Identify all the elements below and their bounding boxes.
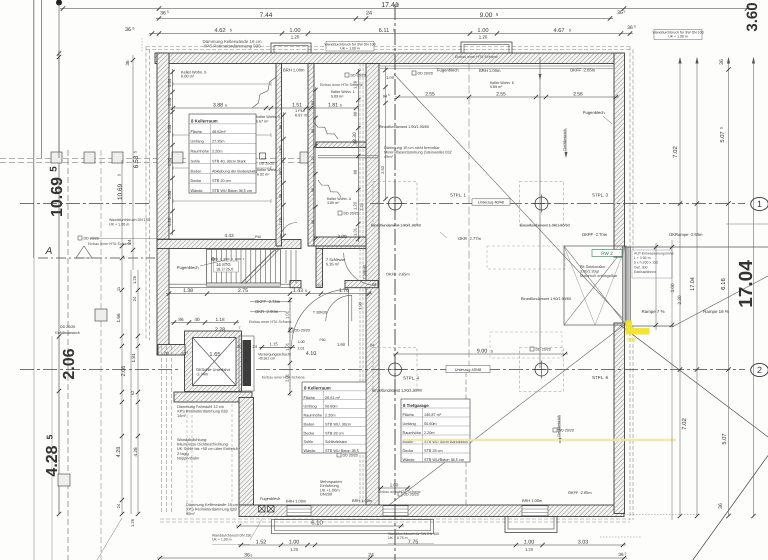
svg-text:1.54: 1.54 [167, 78, 172, 87]
svg-text:2.20m: 2.20m [424, 431, 434, 435]
svg-text:STPL. 4: STPL. 4 [403, 376, 419, 381]
wall: garage right [614, 53, 625, 257]
wall: room1 bottom [157, 240, 301, 249]
svg-text:Edelstahlrinne: Edelstahlrinne [634, 270, 656, 274]
svg-text:3.60: 3.60 [744, 2, 761, 31]
svg-text:BRH 1.00m: BRH 1.00m [522, 498, 542, 503]
svg-text:9.00: 9.00 [477, 348, 488, 354]
svg-text:5: 5 [167, 10, 169, 14]
svg-text:36: 36 [719, 59, 725, 65]
svg-text:36: 36 [618, 552, 624, 557]
svg-text:9.00: 9.00 [480, 12, 493, 19]
svg-text:BRH 1.00m: BRH 1.00m [286, 499, 306, 504]
svg-text:26.61 m²: 26.61 m² [325, 396, 341, 400]
svg-text:1.20: 1.20 [311, 156, 315, 163]
svg-text:86: 86 [178, 317, 184, 322]
dims above elevator [171, 322, 239, 324]
svg-text:Boden: Boden [304, 422, 315, 426]
svg-text:OKFF -2.70m: OKFF -2.70m [582, 232, 608, 237]
svg-text:52: 52 [130, 390, 135, 395]
svg-text:Elt-Sektionaltor: Elt-Sektionaltor [580, 265, 606, 269]
insulation west lower [161, 346, 163, 512]
svg-text:5: 5 [569, 27, 571, 32]
svg-text:7.02: 7.02 [672, 146, 679, 158]
svg-text:1.00: 1.00 [390, 482, 399, 487]
svg-text:24: 24 [132, 296, 137, 301]
svg-text:A: A [45, 246, 53, 257]
svg-text:11: 11 [317, 282, 321, 287]
wall: garage separation with insulation [366, 64, 379, 511]
svg-text:Boden: Boden [191, 169, 202, 173]
section line A [38, 257, 155, 259]
svg-text:6.87 m²: 6.87 m² [295, 113, 309, 118]
svg-text:4.10: 4.10 [306, 351, 317, 357]
svg-text:Einzelfundament 1.90/1.90/60: Einzelfundament 1.90/1.90/60 [521, 297, 571, 301]
svg-text:1.43: 1.43 [293, 288, 303, 294]
right margin vertical dim lines [679, 58, 681, 516]
svg-text:90m²: 90m² [186, 511, 196, 516]
svg-text:5: 5 [625, 551, 627, 555]
boundary posts [51, 152, 62, 163]
svg-text:3.00: 3.00 [670, 283, 675, 292]
svg-text:8 Kellerraum: 8 Kellerraum [191, 119, 218, 124]
svg-text:UK + 1.00 m: UK + 1.00 m [212, 537, 232, 541]
svg-text:2.20: 2.20 [677, 295, 682, 304]
svg-text:1.20: 1.20 [290, 547, 299, 552]
svg-text:Einzelfundament 1.90/1.90/60: Einzelfundament 1.90/1.90/60 [379, 125, 429, 129]
svg-text:Sohle: Sohle [191, 159, 201, 163]
svg-text:1.01: 1.01 [284, 310, 289, 319]
door arc flur-schleuse [280, 223, 297, 240]
svg-text:Einzelfundament 1.90/1.90/60: Einzelfundament 1.90/1.90/60 [520, 224, 570, 228]
svg-text:2.01: 2.01 [284, 373, 289, 382]
flur dim chain [283, 112, 285, 236]
svg-text:24: 24 [368, 552, 374, 558]
svg-text:5: 5 [116, 174, 121, 176]
svg-text:50.60m: 50.60m [424, 422, 437, 426]
svg-text:Fläche: Fläche [403, 413, 414, 417]
door arc schleuse-garage [344, 253, 377, 286]
svg-text:5.89 m²: 5.89 m² [331, 95, 344, 99]
axis 1 [20, 203, 150, 205]
garage top dim chain 2.55/2.50/2.56 [395, 96, 619, 98]
walls: right room column partitions [316, 142, 366, 148]
svg-text:17.04: 17.04 [736, 260, 757, 308]
svg-text:Fugenblech: Fugenblech [260, 496, 280, 501]
svg-text:3.89 m²: 3.89 m² [327, 201, 340, 205]
svg-text:+0/161 cm: +0/161 cm [258, 357, 275, 361]
svg-text:STPL. 1: STPL. 1 [450, 193, 466, 198]
svg-text:50.60m: 50.60m [325, 405, 338, 409]
ramp lines [626, 246, 768, 248]
svg-text:2.55: 2.55 [496, 91, 506, 97]
site boundary dashed lines left [0, 158, 312, 160]
svg-text:DD 20/20: DD 20/20 [343, 454, 358, 458]
svg-text:88: 88 [353, 111, 358, 116]
top dim chain 2 [156, 18, 613, 20]
svg-text:UK + 1.00 m: UK + 1.00 m [340, 46, 360, 50]
svg-text:1.76: 1.76 [339, 288, 349, 294]
svg-text:T 30RdS: T 30RdS [363, 264, 367, 279]
areaway rect below wall [272, 519, 434, 533]
door leaf in wall opening [623, 247, 631, 323]
yellow highlight [626, 321, 650, 335]
svg-text:3.30: 3.30 [352, 132, 358, 142]
svg-text:Raumhöhe: Raumhöhe [191, 150, 209, 154]
svg-text:1.00: 1.00 [289, 539, 300, 545]
svg-text:5: 5 [719, 127, 723, 129]
wall: pier left of 4.10 door [290, 281, 301, 288]
top dim chain 1: 17.41 [60, 8, 750, 10]
staircase 14 STG [207, 250, 281, 284]
garage diag A [394, 74, 626, 322]
duct shaft Versorgungsschacht [243, 340, 252, 386]
svg-text:Sohle: Sohle [304, 440, 314, 444]
bottom chain 2 [238, 544, 626, 546]
door arc schleuse-flur [326, 295, 352, 321]
svg-text:Umfang: Umfang [304, 405, 317, 409]
svg-text:b x h 200 x 150: b x h 200 x 150 [634, 261, 658, 265]
svg-text:1.01: 1.01 [284, 342, 289, 351]
svg-text:OKFF -2.65m: OKFF -2.65m [568, 490, 592, 495]
svg-text:RW 2: RW 2 [601, 251, 613, 256]
svg-text:88: 88 [311, 129, 315, 133]
svg-text:5.07: 5.07 [722, 433, 728, 444]
svg-text:88: 88 [311, 220, 315, 224]
svg-text:45m²: 45m² [384, 154, 394, 159]
room1 span lines [173, 83, 271, 85]
wall: left outer [157, 53, 169, 355]
svg-text:OKRampe -2.55m: OKRampe -2.55m [669, 232, 703, 237]
svg-text:2.20m: 2.20m [212, 150, 222, 154]
svg-text:7: 7 [238, 326, 240, 330]
label wanddurchbruch top 1 [326, 42, 374, 52]
svg-text:1.00: 1.00 [386, 75, 395, 80]
svg-text:Raumhöhe: Raumhöhe [304, 414, 322, 418]
svg-text:STPL. 3: STPL. 3 [592, 193, 608, 198]
svg-text:1.20: 1.20 [479, 35, 488, 40]
svg-text:5: 5 [225, 103, 227, 107]
wall: step to elevator [158, 345, 185, 356]
svg-text:1.20: 1.20 [353, 201, 358, 210]
svg-text:DD 20/20: DD 20/20 [344, 212, 359, 216]
svg-text:UK + 1.00 m: UK + 1.00 m [109, 223, 129, 227]
svg-text:36: 36 [160, 11, 166, 17]
svg-text:36: 36 [718, 503, 724, 509]
svg-text:70: 70 [163, 351, 169, 356]
svg-text:48.62m²: 48.62m² [212, 130, 227, 134]
svg-text:1.38: 1.38 [183, 288, 193, 294]
svg-text:5.89 m²: 5.89 m² [490, 85, 503, 89]
svg-text:1.81: 1.81 [131, 353, 136, 362]
svg-text:1.26: 1.26 [132, 275, 137, 284]
svg-text:Schlitzleisten: Schlitzleisten [325, 440, 347, 444]
svg-text:5: 5 [491, 349, 493, 353]
svg-text:DD 20/20: DD 20/20 [84, 237, 99, 241]
misc diagonal bottom-left [97, 518, 122, 560]
svg-text:39: 39 [244, 359, 249, 364]
svg-text:5: 5 [187, 351, 189, 355]
svg-text:2.20m: 2.20m [325, 414, 335, 418]
svg-text:1.20: 1.20 [525, 547, 534, 552]
svg-text:1.00: 1.00 [289, 28, 300, 34]
garage west interior dim col [385, 66, 387, 200]
svg-text:6.11: 6.11 [379, 28, 390, 34]
svg-text:Umfang: Umfang [191, 140, 204, 144]
svg-text:88: 88 [278, 125, 283, 129]
svg-text:27.95m: 27.95m [212, 140, 225, 144]
svg-text:88: 88 [311, 101, 315, 105]
svg-text:5: 5 [45, 434, 55, 439]
garage 9.00 dim [393, 353, 568, 355]
svg-text:DD 20/20: DD 20/20 [536, 348, 551, 352]
svg-text:Wände: Wände [191, 189, 203, 193]
svg-text:1.90: 1.90 [337, 342, 346, 347]
svg-text:1.00: 1.00 [524, 539, 535, 545]
svg-text:P90: P90 [319, 338, 325, 342]
svg-text:P90: P90 [255, 235, 261, 239]
wall: schleuse west [316, 249, 323, 288]
svg-text:1.66: 1.66 [116, 313, 121, 322]
svg-text:2: 2 [757, 365, 762, 375]
svg-text:Abklebung der Bodenplatte: Abklebung der Bodenplatte [212, 169, 257, 173]
svg-text:24: 24 [116, 503, 121, 508]
svg-text:6.02 m²: 6.02 m² [257, 173, 270, 177]
wall: band right of 4.10 door [345, 281, 378, 288]
svg-text:Raumhöhe: Raumhöhe [403, 431, 421, 435]
svg-text:STB 40, 30cm Stark: STB 40, 30cm Stark [212, 159, 246, 163]
svg-text:7.02: 7.02 [681, 418, 688, 430]
svg-text:2.06: 2.06 [61, 348, 78, 379]
svg-text:2.56: 2.56 [573, 91, 583, 97]
svg-text:10.69: 10.69 [49, 177, 66, 217]
svg-text:20: 20 [237, 344, 242, 349]
svg-text:2.24: 2.24 [359, 202, 364, 210]
svg-text:1.26: 1.26 [167, 217, 172, 226]
garage stall dividers [468, 64, 470, 367]
svg-text:Decke: Decke [191, 179, 202, 183]
svg-text:3.00/2.30gr: 3.00/2.30gr [580, 269, 600, 273]
svg-text:5: 5 [250, 553, 252, 557]
svg-text:5: 5 [133, 151, 138, 153]
svg-text:5: 5 [132, 26, 134, 30]
svg-text:4.28: 4.28 [116, 447, 122, 458]
svg-text:OKR -2.90m: OKR -2.90m [255, 309, 279, 314]
thin rail line right rooms [318, 155, 378, 157]
svg-text:DD 20/20: DD 20/20 [295, 329, 310, 333]
svg-text:1.31: 1.31 [353, 227, 358, 236]
svg-text:OKFF -2.74m: OKFF -2.74m [255, 299, 281, 304]
svg-text:11: 11 [116, 286, 121, 291]
svg-text:STPL. 6: STPL. 6 [592, 375, 608, 380]
svg-text:24: 24 [127, 239, 132, 245]
dim line mid [166, 293, 372, 295]
svg-text:8 Kellerraum: 8 Kellerraum [304, 386, 331, 391]
svg-text:5: 5 [230, 27, 232, 32]
svg-text:Fugenblech: Fugenblech [437, 68, 459, 73]
svg-text:1.55: 1.55 [167, 124, 172, 133]
svg-text:Einzelfundament 1.90/1.90/60: Einzelfundament 1.90/1.90/60 [371, 224, 421, 228]
svg-text:T 30RdS: T 30RdS [313, 311, 328, 315]
svg-text:Einbau einer HTA-Schiene: Einbau einer HTA-Schiene [262, 376, 305, 380]
svg-text:10.69: 10.69 [117, 183, 124, 200]
svg-text:Keller Wohn. 3: Keller Wohn. 3 [256, 115, 280, 119]
svg-text:40: 40 [194, 317, 200, 322]
svg-text:18,7/ 25,0: 18,7/ 25,0 [216, 267, 234, 272]
svg-text:6.67 m²: 6.67 m² [256, 120, 269, 124]
svg-text:OKFF -2.65m: OKFF -2.65m [386, 272, 410, 277]
svg-text:4.28: 4.28 [133, 447, 138, 456]
svg-text:Gef. 300: Gef. 300 [634, 265, 647, 269]
room2 data table [302, 382, 366, 453]
top dim chain 3 [149, 33, 633, 35]
svg-text:5.35 m²: 5.35 m² [326, 262, 340, 267]
svg-text:3.88: 3.88 [213, 102, 223, 108]
left margin small chains [132, 55, 134, 270]
left big dim chain [58, 50, 60, 514]
svg-text:Einbau einer HTA-Schiene: Einbau einer HTA-Schiene [455, 55, 498, 59]
svg-text:Fugenblech: Fugenblech [583, 110, 605, 115]
section line x=395 [394, 4, 396, 560]
svg-text:1.20: 1.20 [291, 35, 300, 40]
AUT text block [632, 250, 672, 278]
svg-text:XPS Perimeterdämmung 038: XPS Perimeterdämmung 038 [203, 44, 261, 49]
svg-text:88: 88 [353, 169, 358, 174]
unterzug boxes [472, 199, 510, 205]
svg-text:2.53: 2.53 [380, 166, 385, 174]
columns [386, 195, 404, 213]
svg-text:BRH 1.00m: BRH 1.00m [283, 68, 305, 73]
wall: top [155, 53, 624, 64]
svg-text:4.62: 4.62 [214, 28, 225, 34]
svg-text:88: 88 [278, 194, 283, 198]
elevator shaft walls [185, 331, 242, 392]
svg-text:STB WU Beton 36,5: STB WU Beton 36,5 [325, 449, 359, 453]
garage diag B [389, 325, 624, 505]
svg-text:Decke: Decke [403, 449, 414, 453]
svg-text:1.26: 1.26 [130, 518, 135, 527]
svg-text:DD 20/20: DD 20/20 [60, 325, 75, 329]
garage table [401, 399, 470, 462]
svg-text:5: 5 [340, 103, 342, 107]
svg-text:Fläche: Fläche [191, 130, 202, 134]
svg-text:7.75: 7.75 [408, 539, 419, 545]
svg-text:1.55: 1.55 [167, 190, 172, 199]
svg-text:5: 5 [305, 289, 307, 293]
svg-text:2.75: 2.75 [238, 288, 248, 294]
door arc hall 4.10 [292, 289, 349, 346]
svg-text:2.28: 2.28 [215, 327, 225, 333]
svg-text:6.53: 6.53 [133, 155, 140, 168]
wall: schleuse north [316, 240, 378, 249]
svg-text:Gefällewestrich: Gefällewestrich [55, 331, 80, 335]
svg-text:STB WU, 30cm: STB WU, 30cm [325, 422, 351, 426]
mid col dim chain [314, 87, 316, 239]
svg-text:Motorisch entriegelbar: Motorisch entriegelbar [580, 274, 618, 278]
svg-text:24: 24 [252, 344, 257, 349]
dashed foundation rects [487, 246, 565, 269]
svg-text:Fläche: Fläche [304, 396, 315, 400]
svg-text:STB 28 cm: STB 28 cm [325, 431, 344, 435]
svg-text:36: 36 [627, 25, 633, 31]
svg-text:OKFF -2.65m: OKFF -2.65m [570, 68, 596, 73]
wall: below elevator [174, 392, 252, 402]
svg-text:1.18: 1.18 [215, 317, 224, 322]
svg-text:1.52: 1.52 [256, 539, 267, 545]
svg-text:98: 98 [311, 188, 315, 192]
garage top wall inner lines [380, 65, 613, 67]
svg-text:4.67: 4.67 [553, 28, 564, 34]
svg-text:36: 36 [125, 60, 130, 66]
svg-text:1.65: 1.65 [209, 352, 220, 358]
svg-text:4.28: 4.28 [44, 445, 61, 476]
svg-text:146.87 m²: 146.87 m² [424, 413, 442, 417]
wall: right col bottom partition [314, 237, 366, 246]
bottom wall window openings [287, 506, 311, 516]
svg-text:Mineralfaserdämmung (Steinwoll: Mineralfaserdämmung (Steinwolle) 032 [384, 149, 452, 154]
svg-text:Decke: Decke [304, 431, 315, 435]
XPS insulation dashed outline [146, 46, 630, 48]
svg-text:Rampe 7 %: Rampe 7 % [641, 309, 664, 314]
svg-text:36: 36 [617, 10, 623, 16]
room1 data table [189, 114, 256, 193]
svg-text:STB WU Beton 36,5 cm: STB WU Beton 36,5 cm [212, 189, 252, 193]
stair landing edge lines [169, 283, 290, 285]
svg-text:Wände: Wände [304, 449, 316, 453]
svg-text:3.03: 3.03 [578, 539, 589, 545]
svg-text:5.07: 5.07 [720, 131, 726, 142]
svg-text:14m²: 14m² [177, 413, 187, 418]
svg-text:BRH 1.00m: BRH 1.00m [479, 68, 501, 73]
svg-text:Unterzug 40/48: Unterzug 40/48 [478, 201, 504, 205]
bottom chain 6.10 [236, 525, 404, 527]
room2 dim verticals col [289, 297, 291, 396]
svg-text:1.00: 1.00 [477, 28, 488, 34]
bottom chain 3 [157, 557, 627, 559]
svg-text:Einbau einer HTA-Schiene: Einbau einer HTA-Schiene [320, 83, 363, 87]
svg-text:Wände: Wände [403, 458, 415, 462]
svg-text:OKR -2.77m: OKR -2.77m [458, 236, 482, 241]
svg-text:2.06: 2.06 [121, 366, 127, 377]
svg-text:Unterzug 40/48: Unterzug 40/48 [455, 367, 482, 372]
svg-text:Wanddurchbruch DN 150: Wanddurchbruch DN 150 [109, 218, 150, 222]
svg-text:UK + 1.00 m: UK + 1.00 m [668, 35, 688, 39]
svg-text:BRH 1.00m: BRH 1.00m [352, 498, 372, 503]
door zigzags [252, 77, 276, 108]
svg-text:5: 5 [624, 9, 626, 13]
svg-text:6.16: 6.16 [720, 278, 727, 290]
svg-text:STB 28 cm: STB 28 cm [424, 449, 443, 453]
svg-text:Keller Wohn. 1: Keller Wohn. 1 [331, 90, 355, 94]
svg-text:1.55: 1.55 [167, 157, 172, 166]
svg-text:6.00 m²: 6.00 m² [181, 74, 195, 79]
svg-text:1: 1 [757, 199, 762, 209]
svg-text:8 Tiefgarage: 8 Tiefgarage [403, 403, 429, 408]
svg-text:STB 20 cm: STB 20 cm [212, 179, 231, 183]
svg-text:Rampe 16 %: Rampe 16 % [703, 309, 729, 314]
svg-text:88: 88 [278, 171, 283, 175]
svg-text:5: 5 [634, 24, 636, 28]
svg-text:DN200: DN200 [320, 492, 333, 497]
room1 left interior dim chain [172, 69, 174, 235]
svg-text:2.01: 2.01 [297, 347, 304, 351]
wall bump top 2 [461, 42, 512, 53]
svg-text:36: 36 [125, 27, 131, 33]
faint yellow line [403, 439, 676, 441]
svg-text:2.00: 2.00 [337, 234, 346, 239]
axis 2 [20, 369, 180, 371]
wall: bottom of building [239, 505, 624, 517]
